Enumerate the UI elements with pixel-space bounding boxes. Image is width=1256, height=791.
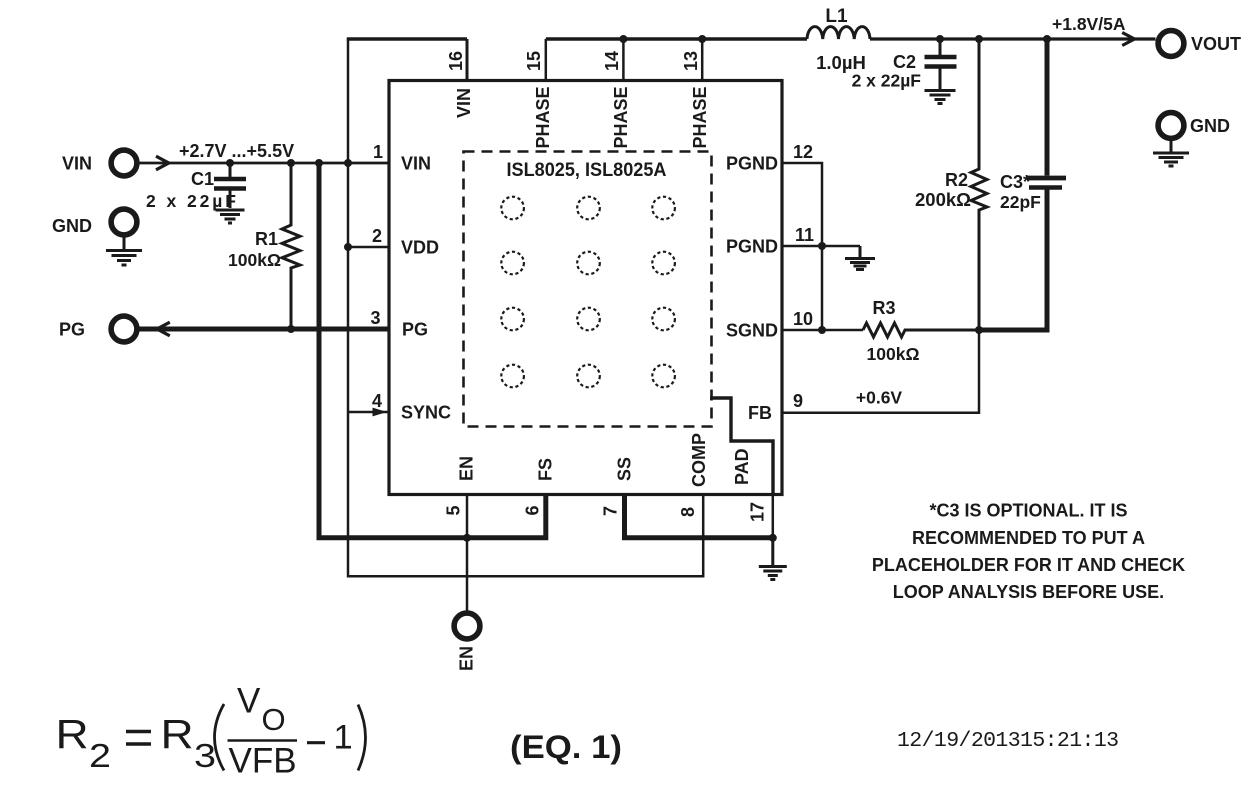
net label +2.7V ...+5.5V xyxy=(179,141,294,161)
pin 12 label xyxy=(793,142,813,162)
pin 4 label xyxy=(372,391,382,411)
pin 9 name FB xyxy=(748,403,772,423)
svg-text:SGND: SGND xyxy=(726,321,778,341)
wire pin 10 stub xyxy=(782,329,863,332)
svg-text:+1.8V/5A: +1.8V/5A xyxy=(1052,14,1126,34)
svg-text:VDD: VDD xyxy=(401,238,439,258)
pin 6 name FS xyxy=(536,458,556,481)
svg-text:FB: FB xyxy=(748,403,772,423)
wire PHASE net to L1 xyxy=(546,37,807,40)
capacitor C1 xyxy=(146,163,246,211)
svg-text:14: 14 xyxy=(602,51,622,71)
node pin11 junction xyxy=(818,242,826,250)
svg-text:11: 11 xyxy=(795,225,814,245)
node C2 junction xyxy=(936,35,944,43)
svg-text:COMP: COMP xyxy=(689,433,709,487)
pin 8 label xyxy=(678,507,698,517)
wire SYNC rail bottom to COMP xyxy=(348,575,703,578)
svg-text:EN: EN xyxy=(457,646,477,671)
pin 11 label xyxy=(795,225,814,245)
IC bump balls grid (dashed circles) xyxy=(501,197,675,388)
ground symbol below C2 xyxy=(925,91,956,104)
wire thick EN/FS row to VIN rail xyxy=(319,495,546,538)
arrow on VIN input wire xyxy=(156,156,169,170)
svg-text:L1: L1 xyxy=(825,6,848,27)
svg-text:PGND: PGND xyxy=(726,237,778,257)
wire EN pin 5 down to EN terminal xyxy=(466,495,469,611)
ground symbol below pin 17 xyxy=(759,538,787,580)
pin 5 name EN xyxy=(457,456,477,481)
pin 3 label xyxy=(370,308,380,328)
exposed PAD step outline inside IC xyxy=(710,398,773,495)
wire COMP stub down xyxy=(702,495,705,578)
wire pin 17 stub xyxy=(772,495,775,538)
wire VIN rail vertical to pin 16 / VDD / SYNC (thin) xyxy=(347,39,350,578)
pin 15 stub xyxy=(545,39,548,81)
terminal GND (output side) xyxy=(1158,113,1230,139)
svg-text:SS: SS xyxy=(615,457,635,481)
svg-text:PG: PG xyxy=(59,320,85,340)
svg-text:R3: R3 xyxy=(872,298,895,318)
svg-text:PLACEHOLDER FOR IT AND CHECK: PLACEHOLDER FOR IT AND CHECK xyxy=(872,555,1185,575)
equation fraction bar xyxy=(228,739,298,741)
svg-text:PHASE: PHASE xyxy=(533,86,553,148)
node EN junction xyxy=(463,534,471,542)
wire thick SS row to PAD ground xyxy=(625,495,773,538)
resistor R2 200k xyxy=(915,39,987,330)
pin 10 name SGND xyxy=(726,321,778,341)
svg-text:12/19/201315:21:13: 12/19/201315:21:13 xyxy=(897,729,1118,753)
svg-text:+0.6V: +0.6V xyxy=(856,388,903,408)
terminal PG xyxy=(59,316,137,342)
pin 12 name PGND xyxy=(726,154,778,174)
terminal VOUT xyxy=(1158,31,1241,57)
svg-text:16: 16 xyxy=(446,51,466,71)
svg-text:+2.7V ...+5.5V: +2.7V ...+5.5V xyxy=(179,141,294,161)
node R1/VIN junction xyxy=(287,159,295,167)
svg-text:5: 5 xyxy=(444,505,464,515)
node R2 top junction xyxy=(975,35,983,43)
capacitor C3 (optional) xyxy=(979,39,1066,330)
svg-text:VFB: VFB xyxy=(229,742,297,781)
pin 15 label xyxy=(524,51,544,71)
pin 8 name COMP xyxy=(689,433,709,487)
svg-text:(EQ. 1): (EQ. 1) xyxy=(510,729,622,765)
IC inner dashed die outline xyxy=(464,152,712,427)
svg-text:VIN: VIN xyxy=(401,154,431,174)
ground symbol at pin 11 xyxy=(845,246,875,270)
IC U1 ISL8025 package outline xyxy=(389,81,782,495)
pin 7 name SS xyxy=(615,457,635,481)
pin 7 label xyxy=(601,506,621,516)
svg-text:PG: PG xyxy=(402,320,428,340)
label (EQ. 1) xyxy=(510,729,622,765)
wire PG terminal to pin 3 (thick) xyxy=(140,327,390,332)
resistor R1 100k xyxy=(228,163,300,329)
pin 13 name PHASE xyxy=(690,86,710,148)
node EN-rail/VIN junction xyxy=(315,159,323,167)
equation equals sign xyxy=(126,732,151,745)
pin 14 label xyxy=(602,51,622,71)
svg-text:200kΩ: 200kΩ xyxy=(915,189,971,210)
node SGND junction xyxy=(818,326,826,334)
svg-text:C3*: C3* xyxy=(1000,172,1030,192)
svg-text:2: 2 xyxy=(372,226,382,246)
svg-text:100kΩ: 100kΩ xyxy=(867,344,920,364)
svg-text:ISL8025, ISL8025A: ISL8025, ISL8025A xyxy=(507,159,667,181)
svg-text:PHASE: PHASE xyxy=(690,86,710,148)
equation EQ.1 R2 = R3(VO/VFB - 1) xyxy=(56,682,353,781)
svg-text:17: 17 xyxy=(748,502,768,522)
svg-text:8: 8 xyxy=(678,507,698,517)
svg-text:4: 4 xyxy=(372,391,382,411)
pin 16 label xyxy=(446,51,466,71)
pin 16 name VIN xyxy=(454,88,474,118)
net label +0.6V xyxy=(856,388,903,408)
svg-text:GND: GND xyxy=(52,216,92,236)
svg-text:3: 3 xyxy=(370,308,380,328)
terminal EN xyxy=(454,613,480,639)
svg-text:3: 3 xyxy=(194,737,216,774)
wire thick rail VIN down to EN/FS row xyxy=(317,163,322,538)
wire pin16 top connection xyxy=(347,37,467,40)
svg-text:VIN: VIN xyxy=(454,88,474,118)
svg-text:100kΩ: 100kΩ xyxy=(228,250,281,270)
svg-text:PHASE: PHASE xyxy=(611,86,631,148)
IC title label ISL8025, ISL8025A xyxy=(507,159,667,181)
svg-text:VOUT: VOUT xyxy=(1191,34,1241,54)
arrow on VOUT wire xyxy=(1122,33,1134,46)
svg-text:PAD: PAD xyxy=(732,448,752,485)
svg-text:1: 1 xyxy=(373,142,383,162)
ground symbol below C1 xyxy=(216,210,245,223)
inductor L1 xyxy=(807,6,870,73)
node FB divider junction xyxy=(975,326,983,334)
svg-text:9: 9 xyxy=(793,391,803,411)
ground symbol below input GND terminal xyxy=(106,238,142,266)
svg-text:VIN: VIN xyxy=(62,154,92,174)
svg-text:R1: R1 xyxy=(255,229,278,249)
svg-text:PGND: PGND xyxy=(726,154,778,174)
wire VIN terminal to pin 1 xyxy=(140,162,390,165)
svg-text:RECOMMENDED TO PUT A: RECOMMENDED TO PUT A xyxy=(912,528,1145,548)
node R1/PG junction xyxy=(287,325,295,333)
svg-text:SYNC: SYNC xyxy=(401,403,451,423)
node pin13 phase junction xyxy=(698,35,706,43)
pin 4 name SYNC xyxy=(401,403,451,423)
pin 11 name PGND xyxy=(726,237,778,257)
svg-text:R: R xyxy=(161,712,194,757)
wire VDD stub pin 2 xyxy=(348,246,389,249)
svg-text:R2: R2 xyxy=(945,170,968,190)
svg-text:FS: FS xyxy=(536,458,556,481)
terminal GND (input side) xyxy=(52,209,137,236)
pin 9 label xyxy=(793,391,803,411)
svg-text:C2: C2 xyxy=(893,52,916,72)
svg-text:10: 10 xyxy=(793,309,813,329)
arrow on PG wire (pointing left) xyxy=(157,322,170,336)
capacitor C2 xyxy=(852,39,957,91)
svg-text:2: 2 xyxy=(89,737,111,774)
wire L1 to VOUT xyxy=(870,37,1156,40)
svg-text:R: R xyxy=(56,712,89,757)
svg-text:GND: GND xyxy=(1190,116,1230,136)
svg-text:15: 15 xyxy=(524,51,544,71)
timestamp 12/19/2013 15:21:13 xyxy=(897,729,1118,753)
pin 17 name PAD xyxy=(732,448,752,485)
pin 14 stub xyxy=(622,39,625,81)
terminal VIN (input) xyxy=(62,150,137,176)
svg-text:2 x 22µF: 2 x 22µF xyxy=(852,71,922,91)
node VDD-rail/VIN junction xyxy=(344,159,352,167)
svg-text:EN: EN xyxy=(457,456,477,481)
svg-text:V: V xyxy=(237,682,261,721)
svg-text:7: 7 xyxy=(601,506,621,516)
svg-text:13: 13 xyxy=(681,51,701,71)
net label +1.8V/5A xyxy=(1052,14,1126,34)
pin 14 name PHASE xyxy=(611,86,631,148)
svg-text:22pF: 22pF xyxy=(1000,192,1041,212)
pin 3 name PG xyxy=(402,320,428,340)
wire pin 12 to ground rail xyxy=(782,163,822,330)
note text C3 optional xyxy=(872,501,1185,603)
pin 16 stub xyxy=(466,39,469,81)
pin 13 label xyxy=(681,51,701,71)
pin 15 name PHASE xyxy=(533,86,553,148)
pin 2 name VDD xyxy=(401,238,439,258)
pin 2 label xyxy=(372,226,382,246)
node C1/VIN junction xyxy=(226,159,234,167)
svg-text:C1: C1 xyxy=(191,169,214,189)
resistor R3 100k xyxy=(863,298,979,364)
svg-text:12: 12 xyxy=(793,142,813,162)
pin 17 label xyxy=(748,502,768,522)
svg-text:LOOP ANALYSIS BEFORE USE.: LOOP ANALYSIS BEFORE USE. xyxy=(893,582,1164,602)
wire pin 11 stub to ground xyxy=(782,245,860,248)
pin 6 label xyxy=(523,505,543,515)
svg-text:1: 1 xyxy=(334,719,353,757)
pin 13 stub xyxy=(701,39,704,81)
pin 10 label xyxy=(793,309,813,329)
label EN terminal (rotated) xyxy=(457,646,477,671)
equation minus sign xyxy=(307,741,325,744)
wire FB to divider node xyxy=(782,330,979,413)
svg-text:6: 6 xyxy=(523,505,543,515)
node pin17 ground junction xyxy=(769,534,777,542)
pin 1 name VIN xyxy=(401,154,431,174)
node VDD junction xyxy=(344,243,352,251)
svg-text:O: O xyxy=(262,702,286,737)
ground symbol below output GND terminal xyxy=(1153,141,1189,166)
node pin14 phase junction xyxy=(619,35,627,43)
pin 5 label xyxy=(444,505,464,515)
wire SYNC stub pin 4 with arrow xyxy=(348,408,389,417)
svg-text:*C3 IS OPTIONAL. IT IS: *C3 IS OPTIONAL. IT IS xyxy=(929,501,1127,521)
equation left paren xyxy=(215,704,225,771)
pin 1 label xyxy=(373,142,383,162)
node C3 top junction xyxy=(1043,35,1051,43)
equation right paren xyxy=(358,705,366,771)
